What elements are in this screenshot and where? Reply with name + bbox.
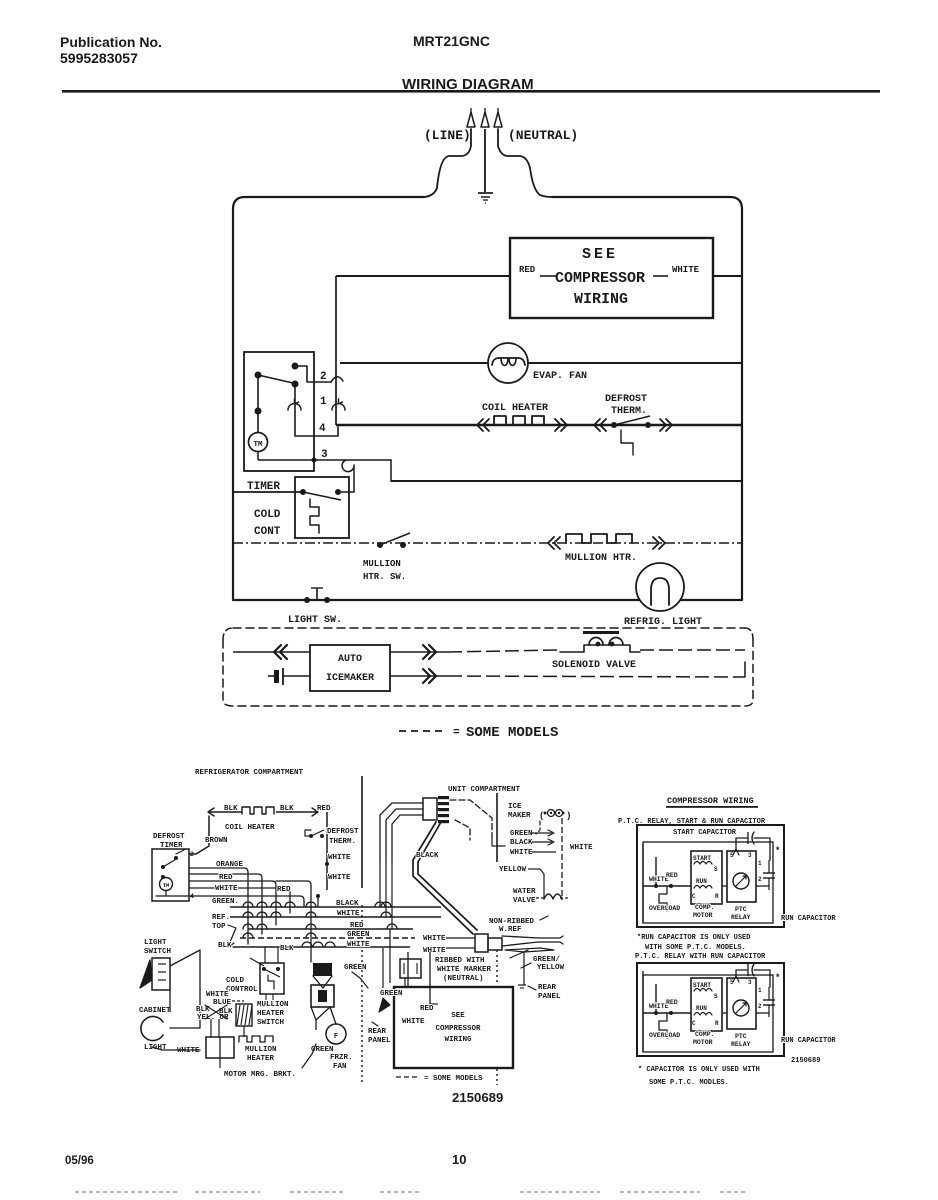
svg-text:MULLION: MULLION <box>257 1001 289 1009</box>
svg-text:ICE: ICE <box>508 803 522 811</box>
svg-text:(NEUTRAL): (NEUTRAL) <box>508 128 578 143</box>
svg-text:RED: RED <box>519 265 536 275</box>
svg-text:WHITE: WHITE <box>215 885 238 893</box>
svg-text:DEFROST: DEFROST <box>327 828 359 836</box>
svg-text:*: * <box>775 846 780 856</box>
svg-text:MULLION: MULLION <box>363 559 401 569</box>
svg-text:RELAY: RELAY <box>731 914 751 921</box>
svg-text:BLACK: BLACK <box>336 900 359 908</box>
svg-text:COMPRESSOR: COMPRESSOR <box>555 270 645 287</box>
svg-text:R: R <box>715 893 719 900</box>
svg-text:THERM.: THERM. <box>329 838 356 846</box>
svg-text:OVERLOAD: OVERLOAD <box>649 905 680 912</box>
svg-text:3: 3 <box>321 449 328 461</box>
svg-text:3: 3 <box>748 852 752 859</box>
svg-text:AUTO: AUTO <box>338 654 362 665</box>
svg-text:COMPRESSOR WIRING: COMPRESSOR WIRING <box>667 796 754 806</box>
svg-text:BLK: BLK <box>280 945 294 953</box>
svg-text:VALVE: VALVE <box>513 897 536 905</box>
svg-text:RED: RED <box>420 1005 434 1013</box>
svg-text:S: S <box>714 866 718 873</box>
svg-text:REFRIG. LIGHT: REFRIG. LIGHT <box>624 617 702 628</box>
svg-text:START CAPACITOR: START CAPACITOR <box>673 829 737 837</box>
svg-text:S: S <box>714 993 718 1000</box>
svg-text:WHITE: WHITE <box>177 1047 200 1055</box>
svg-text:TM: TM <box>253 441 263 449</box>
svg-text:BLK: BLK <box>218 942 232 950</box>
svg-text:WHITE: WHITE <box>423 935 446 943</box>
svg-text:Publication No.: Publication No. <box>60 34 162 50</box>
svg-text:=: = <box>453 727 460 739</box>
svg-text:2150689: 2150689 <box>452 1090 503 1105</box>
svg-text:WHITE: WHITE <box>672 265 700 275</box>
svg-text:DEFROST: DEFROST <box>153 833 185 841</box>
svg-text:CONTROL: CONTROL <box>226 986 258 994</box>
svg-text:COMP.: COMP. <box>695 1031 715 1038</box>
svg-text:SOME P.T.C. MODLES.: SOME P.T.C. MODLES. <box>649 1079 729 1087</box>
svg-text:WHITE: WHITE <box>347 941 370 949</box>
svg-text:COLD: COLD <box>226 977 245 985</box>
svg-text:C: C <box>692 893 696 900</box>
svg-text:PTC: PTC <box>735 906 747 913</box>
svg-text:TIMER: TIMER <box>247 481 280 493</box>
svg-text:DEFROST: DEFROST <box>605 394 647 405</box>
svg-text:GREEN: GREEN <box>347 931 370 939</box>
svg-text:SEE: SEE <box>582 246 618 263</box>
svg-text:GREEN: GREEN <box>344 964 367 972</box>
svg-text:RUN CAPACITOR: RUN CAPACITOR <box>781 1037 836 1045</box>
svg-text:HEATER: HEATER <box>257 1010 285 1018</box>
svg-text:1: 1 <box>758 987 762 994</box>
svg-text:WHITE: WHITE <box>423 947 446 955</box>
svg-text:LIGHT SW.: LIGHT SW. <box>288 615 342 626</box>
svg-text:*RUN CAPACITOR IS ONLY USED: *RUN CAPACITOR IS ONLY USED <box>637 934 750 942</box>
svg-text:3: 3 <box>748 979 752 986</box>
svg-text:1: 1 <box>320 396 327 408</box>
svg-text:MRT21GNC: MRT21GNC <box>413 33 490 49</box>
svg-text:WHITE: WHITE <box>206 991 229 999</box>
svg-text:SWITCH: SWITCH <box>144 948 171 956</box>
svg-text:WITH SOME P.T.C. MODELS.: WITH SOME P.T.C. MODELS. <box>645 944 746 952</box>
svg-text:2: 2 <box>758 1003 762 1010</box>
svg-text:THERM.: THERM. <box>611 406 647 417</box>
svg-text:RED: RED <box>219 874 233 882</box>
svg-text:SEE: SEE <box>451 1012 465 1020</box>
svg-text:GREEN/: GREEN/ <box>533 956 561 964</box>
svg-text:BLACK: BLACK <box>416 852 439 860</box>
svg-text:WHITE: WHITE <box>328 854 351 862</box>
svg-text:): ) <box>566 811 571 821</box>
svg-text:PANEL: PANEL <box>538 993 561 1001</box>
svg-text:WHITE: WHITE <box>328 874 351 882</box>
svg-text:WIRING: WIRING <box>574 291 628 308</box>
svg-text:WHITE MARKER: WHITE MARKER <box>437 966 492 974</box>
svg-text:FAN: FAN <box>333 1063 347 1071</box>
svg-text:RUN: RUN <box>696 1005 707 1012</box>
svg-text:REAR: REAR <box>538 984 557 992</box>
svg-text:PTC: PTC <box>735 1033 747 1040</box>
svg-text:MOTOR: MOTOR <box>693 1039 713 1046</box>
svg-text:MULLION: MULLION <box>245 1046 277 1054</box>
svg-text:HEATER: HEATER <box>247 1055 275 1063</box>
svg-text:WHITE: WHITE <box>402 1018 425 1026</box>
svg-text:RUN: RUN <box>696 878 707 885</box>
svg-text:(NEUTRAL): (NEUTRAL) <box>443 975 484 983</box>
svg-text:RUN CAPACITOR: RUN CAPACITOR <box>781 915 836 923</box>
svg-text:SOLENOID VALVE: SOLENOID VALVE <box>552 660 636 671</box>
svg-text:EVAP. FAN: EVAP. FAN <box>533 371 587 382</box>
svg-text:WATER: WATER <box>513 888 536 896</box>
svg-text:RED: RED <box>666 999 678 1006</box>
svg-text:WHITE: WHITE <box>510 849 533 857</box>
svg-text:RED: RED <box>666 872 678 879</box>
svg-text:GREEN: GREEN <box>380 990 403 998</box>
svg-text:1: 1 <box>758 860 762 867</box>
svg-text:10: 10 <box>452 1152 466 1167</box>
svg-text:BLUE: BLUE <box>213 999 232 1007</box>
svg-text:TM: TM <box>163 882 170 889</box>
svg-text:REF.: REF. <box>212 914 230 922</box>
svg-text:= SOME MODELS: = SOME MODELS <box>424 1075 483 1083</box>
svg-text:RIBBED WITH: RIBBED WITH <box>435 957 485 965</box>
svg-text:RED: RED <box>350 922 364 930</box>
svg-text:FRZR.: FRZR. <box>330 1054 353 1062</box>
svg-text:CABINET: CABINET <box>139 1007 171 1015</box>
svg-text:YELLOW: YELLOW <box>499 866 527 874</box>
svg-text:MULLION HTR.: MULLION HTR. <box>565 553 637 564</box>
svg-text:05/96: 05/96 <box>65 1155 94 1167</box>
svg-text:2: 2 <box>320 371 327 383</box>
svg-text:NON-RIBBED: NON-RIBBED <box>489 918 535 926</box>
svg-text:BLK: BLK <box>224 805 238 813</box>
svg-text:UNIT COMPARTMENT: UNIT COMPARTMENT <box>448 786 521 794</box>
svg-text:*: * <box>775 973 780 983</box>
svg-text:WIRING: WIRING <box>444 1036 472 1044</box>
svg-text:ORANGE: ORANGE <box>216 861 244 869</box>
svg-text:2150689: 2150689 <box>791 1057 820 1065</box>
svg-text:BROWN: BROWN <box>205 837 228 845</box>
svg-text:GREEN.: GREEN. <box>212 898 239 906</box>
svg-text:PANEL: PANEL <box>368 1037 391 1045</box>
svg-text:MAKER: MAKER <box>508 812 531 820</box>
svg-text:YELLOW: YELLOW <box>537 964 565 972</box>
svg-text:GREEN: GREEN <box>510 830 533 838</box>
svg-text:CONT: CONT <box>254 526 281 538</box>
svg-text:SWITCH: SWITCH <box>257 1019 284 1027</box>
svg-text:MOTOR: MOTOR <box>693 912 713 919</box>
svg-text:SOME MODELS: SOME MODELS <box>466 725 558 741</box>
svg-text:RED: RED <box>277 886 291 894</box>
svg-text:MOTOR MRG. BRKT.: MOTOR MRG. BRKT. <box>224 1071 296 1079</box>
svg-text:LIGHT: LIGHT <box>144 939 167 947</box>
svg-text:F: F <box>334 1033 338 1041</box>
svg-text:RED: RED <box>317 805 331 813</box>
svg-text:REAR: REAR <box>368 1028 387 1036</box>
svg-text:W.REF: W.REF <box>499 926 522 934</box>
svg-text:P.T.C. RELAY WITH RUN CAPACITO: P.T.C. RELAY WITH RUN CAPACITOR <box>635 953 766 961</box>
svg-text:* CAPACITOR IS ONLY USED WITH: * CAPACITOR IS ONLY USED WITH <box>638 1066 760 1074</box>
svg-text:COLD: COLD <box>254 509 281 521</box>
svg-text:WHITE: WHITE <box>337 910 360 918</box>
svg-text:2: 2 <box>758 876 762 883</box>
svg-text:OVERLOAD: OVERLOAD <box>649 1032 680 1039</box>
svg-text:COMPRESSOR: COMPRESSOR <box>435 1025 481 1033</box>
svg-text:ICEMAKER: ICEMAKER <box>326 673 374 684</box>
svg-text:4: 4 <box>319 423 326 435</box>
svg-text:BLACK: BLACK <box>510 839 533 847</box>
svg-text:COIL HEATER: COIL HEATER <box>482 403 548 414</box>
svg-text:COMP.: COMP. <box>695 904 715 911</box>
svg-text:(LINE): (LINE) <box>424 128 471 143</box>
svg-text:TOP: TOP <box>212 923 226 931</box>
svg-text:C: C <box>692 1020 696 1027</box>
svg-text:R: R <box>715 1020 719 1027</box>
svg-text:HTR. SW.: HTR. SW. <box>363 572 406 582</box>
svg-text:REFRIGERATOR COMPARTMENT: REFRIGERATOR COMPARTMENT <box>195 769 304 777</box>
svg-text:COIL HEATER: COIL HEATER <box>225 824 275 832</box>
svg-text:5995283057: 5995283057 <box>60 50 138 66</box>
svg-text:RELAY: RELAY <box>731 1041 751 1048</box>
svg-text:WHITE: WHITE <box>570 844 593 852</box>
